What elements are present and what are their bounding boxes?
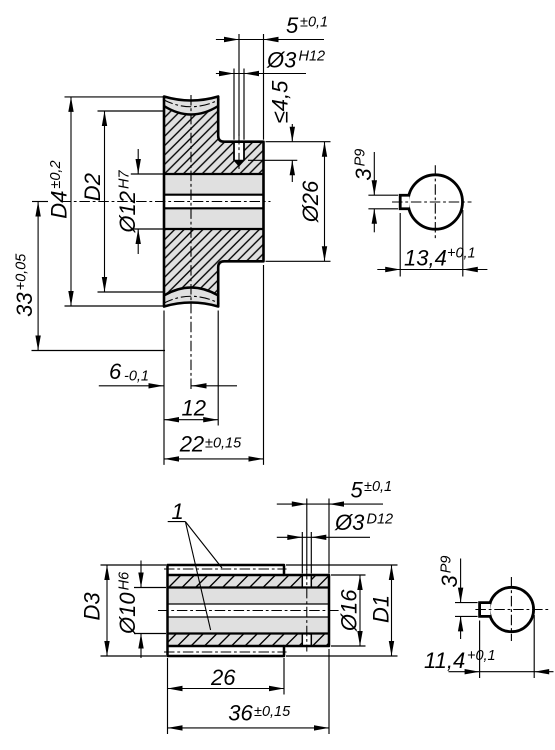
dimension D3: [106, 565, 108, 656]
hole axis (dash-dot): [238, 134, 240, 169]
svg-text:H6: H6: [117, 571, 133, 590]
dimension 5 +-0,1 (cross hole position): [277, 503, 383, 505]
svg-text:Ø3: Ø3: [334, 510, 365, 535]
svg-text:±0,1: ±0,1: [300, 15, 328, 31]
worm pitch line top (dash-dot): [164, 568, 287, 570]
circle vertical centerline: [434, 165, 436, 238]
svg-text:D1: D1: [369, 595, 394, 623]
worm bore side view circle O10: [489, 587, 533, 631]
keyway slot cutout: [400, 197, 409, 208]
dimension 13,4 +0,1 (keyway depth): [399, 213, 401, 277]
worm outline: [168, 565, 330, 656]
centerline tick at 33-dim: [32, 201, 48, 203]
horizontal centerline: [61, 201, 271, 203]
worm keyway top edge: [168, 603, 330, 605]
throat root arc top (thick): [164, 106, 218, 115]
svg-text:Ø26: Ø26: [298, 180, 323, 223]
svg-text:D2: D2: [80, 173, 105, 201]
worm wheel cross-section body (hatched): [164, 97, 264, 307]
dimension 3 P9 (keyway width, bottom view): [455, 602, 478, 604]
worm root line bottom: [168, 645, 285, 647]
pitch arc bottom (dash-dot): [163, 296, 220, 303]
pitch arc top (dash-dot): [163, 100, 220, 107]
svg-text:+0,05: +0,05: [14, 253, 30, 291]
svg-text:±0,2: ±0,2: [48, 160, 64, 188]
set screw hole walls and drill point: [233, 142, 235, 161]
bore band O12 (gray): [164, 174, 264, 229]
svg-text:5: 5: [351, 477, 364, 502]
worm bore top edge: [168, 586, 330, 588]
svg-text:6: 6: [109, 359, 122, 384]
dimension O3 D12 (cross hole): [277, 536, 370, 538]
svg-text:≤4,5: ≤4,5: [268, 80, 293, 123]
svg-text:36: 36: [228, 700, 253, 725]
bore bottom edge: [164, 228, 264, 230]
svg-text:P9: P9: [353, 149, 369, 167]
worm cross-section body (hatched): [168, 565, 330, 656]
svg-text:P9: P9: [439, 556, 455, 574]
dimension D1 (worm outer diameter): [391, 565, 393, 656]
dimension 6 -0,1 (face to center plane): [99, 385, 164, 387]
svg-text:-0,1: -0,1: [124, 369, 149, 385]
worm pitch line bottom (dash-dot): [164, 651, 287, 653]
svg-text:±0,15: ±0,15: [205, 436, 242, 452]
cross hole axis (dash-dot): [306, 569, 308, 652]
svg-text:+0,1: +0,1: [447, 246, 476, 262]
cross hole walls: [301, 575, 303, 588]
hole bottom extension line: [248, 159, 297, 161]
circle horizontal centerline: [475, 609, 550, 611]
dimension 22 +-0,15 (total width): [164, 458, 264, 460]
dimension 3 P9 (keyway width, top view): [368, 194, 398, 196]
dimension 33 +0,05 (center height): [37, 202, 39, 351]
svg-text:13,4: 13,4: [404, 246, 447, 271]
svg-text:H12: H12: [299, 49, 326, 65]
svg-text:D12: D12: [367, 512, 394, 528]
svg-text:3: 3: [351, 168, 376, 181]
svg-text:33: 33: [12, 292, 37, 317]
bore top edge: [164, 173, 264, 175]
svg-text:Ø3: Ø3: [266, 48, 297, 73]
throat root arc bottom (thick): [164, 288, 218, 296]
svg-text:1: 1: [172, 499, 184, 524]
svg-text:±0,15: ±0,15: [254, 704, 291, 720]
keyway top edge: [164, 194, 264, 196]
worm wheel throat tooth band bottom (gray): [164, 288, 218, 307]
svg-text:26: 26: [210, 665, 236, 690]
worm horizontal centerline: [158, 610, 340, 612]
set-screw hole O3 (white cut): [234, 142, 244, 161]
svg-text:5: 5: [286, 13, 299, 38]
worm root line top: [168, 574, 285, 576]
vertical centerline: [190, 95, 192, 391]
dimension O26 (hub diameter): [324, 142, 326, 262]
dimension D4 +-0,2 (outer diameter): [70, 97, 72, 306]
svg-text:Ø12: Ø12: [115, 191, 140, 234]
cross hole bottom slot (white): [302, 635, 311, 645]
worm bore band O10 (gray): [168, 588, 330, 634]
svg-text:+0,1: +0,1: [467, 648, 496, 664]
dimension 5 +-0,1 (set screw hole position): [216, 39, 324, 41]
dimension O16 (shaft end diameter): [359, 575, 361, 646]
circle vertical centerline: [510, 577, 512, 641]
dimension 12 (rim width): [164, 419, 218, 421]
svg-text:22: 22: [179, 431, 204, 456]
svg-text:H7: H7: [117, 170, 133, 189]
svg-text:D4: D4: [47, 191, 72, 219]
cross hole top slot (white): [302, 576, 311, 586]
keyway bottom edge: [164, 207, 264, 209]
svg-text:D3: D3: [80, 592, 105, 621]
bore side view circle O12: [408, 175, 462, 229]
circle horizontal centerline: [392, 201, 472, 203]
worm keyway slot cutout: [480, 604, 490, 615]
dimension O10 H6 (worm bore): [140, 561, 142, 588]
worm wheel throat tooth band top (gray): [164, 97, 218, 115]
dimension O3 H12 (set screw hole): [216, 73, 306, 75]
svg-text:3: 3: [437, 575, 462, 588]
dimension &lt;=4,5 (hole depth): [291, 124, 293, 142]
dimension 11,4 +0,1 (keyway depth): [479, 621, 481, 679]
outline of worm wheel: [164, 97, 264, 307]
worm bore bottom edge: [168, 632, 330, 634]
keyway band (white): [164, 195, 264, 209]
svg-text:11,4: 11,4: [424, 648, 465, 673]
dimension 36 +-0,15 (total length): [168, 727, 330, 729]
svg-text:Ø10: Ø10: [115, 592, 140, 635]
svg-text:12: 12: [182, 396, 206, 421]
dimension 26 (thread length): [168, 688, 285, 690]
dimension O12 H7 (bore): [137, 149, 139, 174]
worm keyway bottom edge: [168, 616, 330, 618]
worm thread band top (white): [168, 565, 285, 575]
worm keyway band (white): [168, 604, 330, 617]
svg-text:Ø16: Ø16: [337, 589, 362, 632]
svg-text:±0,1: ±0,1: [364, 479, 392, 495]
dimension D2 (pitch diameter): [104, 111, 106, 292]
worm thread band bottom (white): [168, 646, 285, 656]
